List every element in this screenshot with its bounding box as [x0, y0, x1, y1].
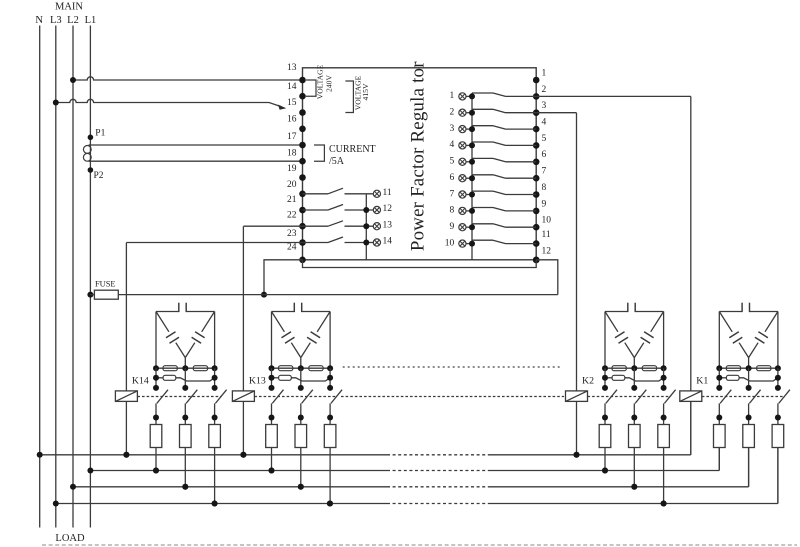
svg-text:3: 3 [450, 124, 455, 134]
svg-text:P1: P1 [95, 129, 105, 139]
svg-text:VOLTAGE: VOLTAGE [315, 64, 324, 99]
svg-text:14: 14 [383, 237, 393, 247]
svg-text:19: 19 [287, 164, 297, 174]
svg-text:L3: L3 [50, 15, 62, 26]
svg-text:4: 4 [542, 118, 547, 128]
svg-text:12: 12 [383, 204, 393, 214]
svg-text:5: 5 [542, 134, 547, 144]
svg-text:18: 18 [287, 149, 297, 159]
svg-text:LOAD: LOAD [55, 533, 85, 544]
svg-text:2: 2 [450, 108, 455, 118]
svg-text:20: 20 [287, 180, 297, 190]
svg-text:23: 23 [287, 229, 297, 239]
svg-text:17: 17 [287, 132, 297, 142]
svg-text:10: 10 [542, 216, 552, 226]
svg-text:L2: L2 [67, 15, 79, 26]
svg-text:CURRENT: CURRENT [329, 144, 376, 155]
svg-text:4: 4 [450, 140, 455, 150]
svg-text:415V: 415V [361, 83, 370, 100]
svg-text:11: 11 [542, 230, 551, 240]
svg-text:P2: P2 [94, 171, 104, 181]
svg-text:16: 16 [287, 115, 297, 125]
svg-text:6: 6 [450, 173, 455, 183]
svg-text:K1: K1 [696, 375, 708, 386]
svg-text:6: 6 [542, 150, 547, 160]
svg-text:L1: L1 [85, 15, 97, 26]
svg-text:13: 13 [383, 220, 393, 230]
svg-text:9: 9 [450, 222, 455, 232]
svg-text:Power Factor Regula tor: Power Factor Regula tor [407, 61, 428, 251]
svg-text:21: 21 [287, 195, 297, 205]
svg-text:/5A: /5A [329, 156, 345, 167]
svg-text:5: 5 [450, 157, 455, 167]
svg-text:K13: K13 [249, 375, 266, 386]
svg-text:FUSE: FUSE [95, 280, 115, 289]
svg-text:1: 1 [542, 68, 547, 78]
svg-text:8: 8 [542, 183, 547, 193]
svg-text:MAIN: MAIN [55, 2, 83, 13]
svg-text:24: 24 [287, 243, 297, 253]
svg-text:K14: K14 [132, 375, 149, 386]
svg-text:7: 7 [542, 167, 547, 177]
svg-text:22: 22 [287, 211, 297, 221]
svg-text:15: 15 [287, 98, 297, 108]
svg-text:11: 11 [383, 188, 392, 198]
svg-text:13: 13 [287, 63, 297, 73]
svg-text:12: 12 [542, 247, 552, 257]
svg-text:1: 1 [450, 91, 455, 101]
svg-text:14: 14 [287, 82, 297, 92]
svg-text:240V: 240V [325, 75, 334, 92]
svg-text:3: 3 [542, 101, 547, 111]
svg-text:10: 10 [445, 238, 455, 248]
svg-text:8: 8 [450, 206, 455, 216]
svg-text:N: N [35, 15, 43, 26]
svg-text:K2: K2 [582, 375, 594, 386]
svg-text:7: 7 [450, 189, 455, 199]
svg-text:9: 9 [542, 199, 547, 209]
svg-text:2: 2 [542, 85, 547, 95]
